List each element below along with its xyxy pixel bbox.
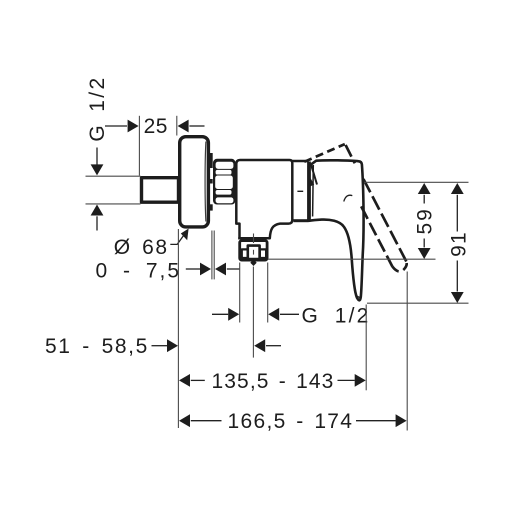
outlet nut left facet	[242, 249, 248, 258]
dimension 0-7,5: left-pointing arrow	[215, 263, 226, 276]
extension line x=239.7 (outlet left)	[239, 263, 241, 323]
outlet flange line	[238, 237, 268, 239]
extension line y=259.2 (bottom of outlet)	[268, 258, 436, 260]
G 1/2 left: up arrow	[91, 205, 104, 216]
valve neck bottom edge	[294, 219, 309, 222]
svg-text:G 1/2: G 1/2	[86, 75, 109, 141]
dimension 166,5-174: right arrow	[396, 414, 407, 427]
dimension G 1/2 outlet: right-pointing arrow	[228, 308, 239, 321]
dimension 59: lower line	[423, 239, 425, 248]
svg-text:25: 25	[144, 115, 168, 138]
outlet centerline tick	[253, 234, 255, 244]
dimension 91: lower line	[456, 261, 458, 292]
dimension G 1/2 outlet: left-pointing arrow	[268, 308, 279, 321]
mixer body	[236, 160, 292, 238]
dashed lever: outer edge upper	[346, 145, 355, 163]
outlet nut middle facet	[248, 246, 260, 259]
extension line x=176.8 (25 dim right)	[176, 116, 178, 136]
G 1/2 left: extension line top (nipple top face)	[86, 175, 141, 177]
dimension 135,5-143: right tail	[338, 379, 355, 381]
dashed lever: outer edge lower	[363, 179, 406, 262]
dimension 51-58,5: left-pointing arrow	[254, 339, 265, 352]
escutcheon plate (Ø68 rosette, side view)	[180, 137, 209, 227]
lever left edge (thick)	[307, 162, 311, 221]
dimension 25: left arrow	[128, 120, 139, 133]
svg-text:59: 59	[413, 207, 436, 234]
outlet nut (G1/2 bottom connection)	[240, 241, 267, 266]
G 1/2 left: down arrow	[91, 164, 104, 175]
dimension 59: down arrow	[418, 248, 431, 259]
extension line y=303.2 (bottom of lever tip)	[367, 302, 469, 304]
dimension 51-58,5: right-pointing arrow	[167, 339, 178, 352]
G 1/2 left: extension line bottom (nipple bottom face)	[86, 203, 141, 205]
escutcheon dome edge line	[204, 142, 207, 222]
svg-text:G 1/2: G 1/2	[302, 304, 371, 327]
wall nipple (threaded G1/2 connector)	[142, 178, 179, 203]
svg-text:135,5 - 143: 135,5 - 143	[212, 370, 335, 393]
dashed lever, raised position: top edge	[304, 144, 345, 162]
neck centerline tick	[297, 190, 303, 192]
dimension 25: right arrow	[178, 120, 189, 133]
outlet center tick in facet	[253, 250, 255, 255]
dimension 135,5-143: left tail	[191, 379, 205, 381]
dimension 0-7,5: left tail	[186, 268, 200, 270]
dimension 0-7,5: right-pointing arrow	[200, 263, 211, 276]
lever handle (solid)	[309, 160, 364, 300]
outlet tip	[250, 259, 256, 266]
dimension 91: upper line	[456, 195, 458, 232]
G 1/2 left: dim line above	[96, 148, 98, 165]
dimension 91: down arrow	[451, 292, 464, 303]
knurled adjustment nut	[213, 159, 236, 205]
dimension 135,5-143: right arrow	[355, 374, 366, 387]
extension line y=182.3 (top of lever)	[364, 181, 469, 183]
Ø 68 leader arrow	[181, 229, 189, 241]
dimension 166,5-174: right tail	[356, 420, 396, 422]
dimension 166,5-174: left tail	[191, 420, 222, 422]
extension line x=139.5 (wall face, 25 dim left)	[138, 116, 140, 176]
svg-text:Ø 68: Ø 68	[114, 236, 169, 259]
svg-text:166,5 - 174: 166,5 - 174	[228, 410, 354, 433]
extension line x=366 (lever tip)	[365, 305, 367, 391]
dimension 59: up arrow	[418, 183, 431, 194]
extension line x=211.9 (escutcheon back)	[211, 231, 213, 280]
outlet nut right facet	[260, 249, 266, 258]
hex segment behind escutcheon (middle)	[210, 179, 213, 184]
dimension 25: left tail	[105, 125, 127, 127]
dashed lever: inner edge	[361, 206, 392, 266]
extension line x=267.7 (outlet right)	[267, 263, 269, 323]
extension line x=407.2 (dashed lever tip)	[406, 272, 408, 431]
dimension 135,5-143: left arrow	[179, 374, 190, 387]
lever tip crease	[354, 291, 360, 298]
dimension 166,5-174: left arrow	[179, 414, 190, 427]
dimension G 1/2 outlet: left tail	[212, 313, 228, 315]
hex segment behind escutcheon (top)	[210, 153, 213, 168]
dimension 0-7,5: right tail	[227, 268, 240, 270]
dimension 59: upper line	[423, 195, 425, 204]
G 1/2 left: dim line below	[96, 216, 98, 230]
svg-text:51 - 58,5: 51 - 58,5	[45, 335, 149, 358]
dimension 91: up arrow	[451, 183, 464, 194]
svg-text:0 - 7,5: 0 - 7,5	[96, 260, 182, 283]
lever grip crease	[344, 195, 353, 201]
dashed lever: tip cap	[392, 262, 406, 272]
dimension 25: right tail	[189, 125, 204, 127]
extension line x=214.2 (nut front)	[213, 231, 215, 280]
lever pivot wedge	[310, 178, 314, 187]
dimension 51-58,5: left tail	[152, 345, 168, 347]
svg-text:91: 91	[448, 231, 471, 257]
dimension 51-58,5: right tail	[266, 345, 281, 347]
outlet centerline extension	[252, 267, 254, 358]
Ø 68 leader line	[170, 231, 187, 245]
lever front crease vertical	[312, 165, 315, 217]
long extension line x=178.5 (escutcheon face)	[177, 229, 179, 428]
valve neck top edge	[292, 160, 308, 163]
dimension G 1/2 outlet: right tail	[280, 313, 299, 315]
lever front crease diagonal	[311, 164, 317, 185]
hex segment behind escutcheon (bottom)	[210, 204, 213, 210]
